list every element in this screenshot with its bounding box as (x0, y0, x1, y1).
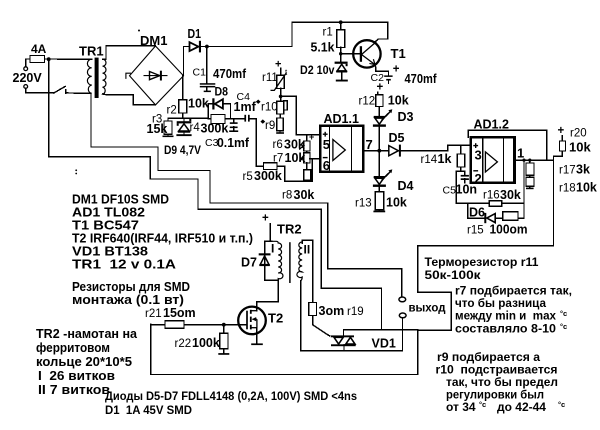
svg-text:D9 4,7V: D9 4,7V (164, 143, 201, 157)
resistor r7 (304, 153, 310, 163)
wire D7 loop (265, 241, 279, 280)
svg-text:T1: T1 (391, 46, 406, 61)
svg-text:+: + (262, 213, 269, 225)
wire VD1 bottom stub (343, 345, 345, 351)
svg-text:II 7 витков: II 7 витков (38, 383, 110, 397)
r6 select arrow (300, 146, 304, 161)
svg-text:DM1 DF10S SMD: DM1 DF10S SMD (72, 193, 169, 207)
resistor r14 (457, 154, 464, 167)
220V terminal bottom (24, 85, 28, 89)
capacitor C4 (244, 115, 249, 122)
TR2 transformer (272, 240, 313, 283)
svg-text:300k: 300k (254, 169, 282, 183)
svg-text:470mf: 470mf (213, 66, 247, 81)
svg-text:TR2 -намотан на: TR2 -намотан на (36, 327, 138, 341)
svg-text:220V: 220V (13, 71, 43, 85)
wire D9 bottom stub (183, 132, 185, 134)
svg-text:TR2: TR2 (277, 222, 302, 237)
output terminal bottom (399, 313, 406, 318)
wire feedback left leg down to r16 (456, 171, 489, 203)
wire output bottom terminal down (402, 318, 404, 351)
resistor r2 (179, 100, 187, 113)
svg-text:D8: D8 (215, 85, 229, 99)
resistor r20 (559, 141, 565, 151)
svg-text:°с: °с (558, 400, 565, 409)
svg-text:10k: 10k (188, 97, 209, 111)
wire 220V top terminal to fuse (26, 59, 30, 67)
svg-text:15om: 15om (163, 306, 196, 320)
svg-text:VD1: VD1 (372, 337, 396, 351)
resistor r13 (375, 192, 383, 210)
svg-text:+: + (275, 59, 281, 71)
wire D8 right lead (224, 103, 231, 105)
wire output node down right edge (553, 156, 555, 245)
svg-text:AD1.2: AD1.2 (474, 118, 509, 132)
op-amp AD1.2 (471, 137, 515, 182)
r9 end bar (276, 132, 284, 134)
svg-text:r13: r13 (355, 198, 372, 210)
wire r2 bottom stub (182, 113, 184, 118)
wire T1 emitter down (375, 65, 389, 76)
svg-text:°с: °с (479, 400, 486, 409)
svg-text:r20: r20 (570, 128, 587, 140)
wire r18 bottom stub (529, 186, 531, 187)
wire D8 r4 left rail (207, 104, 209, 119)
wire r12 top stub (377, 92, 379, 94)
svg-text:TR1: TR1 (79, 44, 104, 59)
wire D3 to output node (378, 125, 380, 150)
wire 220V bottom terminal to switch (26, 88, 54, 93)
wire VD1 top stub (343, 330, 345, 337)
wire loop to VD1 top (344, 329, 418, 331)
wire r4 left lead (208, 118, 211, 120)
svg-text:r19: r19 (347, 306, 364, 318)
svg-text:3om: 3om (319, 304, 345, 318)
svg-text:100k: 100k (192, 336, 220, 350)
svg-text:5: 5 (323, 137, 330, 152)
TR1 primary coil (87, 59, 91, 93)
wire r15 right (518, 217, 524, 219)
svg-text:°с: °с (560, 322, 567, 331)
svg-text:470mf: 470mf (405, 71, 438, 86)
wire A mains N stepped to output terminal (91, 93, 402, 297)
T2 source end bar (251, 343, 263, 345)
resistor r18 (526, 177, 534, 186)
fuse 4A (30, 56, 45, 63)
transistor T1 (353, 40, 380, 67)
svg-text:10k: 10k (285, 151, 306, 165)
svg-text:1: 1 (517, 146, 524, 161)
wire node to D4 (378, 151, 380, 177)
svg-text:r9: r9 (265, 120, 275, 132)
resistor r21 (165, 321, 184, 329)
svg-text:r22: r22 (175, 338, 192, 350)
svg-text:VD1 BT138: VD1 BT138 (72, 245, 148, 259)
svg-text:T1 BC547: T1 BC547 (72, 219, 139, 233)
svg-text:r17: r17 (559, 165, 576, 177)
wire D9 top stub (183, 118, 185, 122)
wire TR1 secondary bottom to bridge bottom vertex (103, 94, 156, 105)
trimmer mark r9 (260, 119, 265, 123)
svg-text:1mf: 1mf (234, 100, 257, 114)
svg-text:5.1k: 5.1k (311, 41, 335, 55)
wire r3 bottom stub (167, 134, 169, 135)
svg-text:r7: r7 (273, 153, 283, 165)
wire D2 bottom stub (341, 73, 343, 80)
resistor r6 (304, 141, 310, 151)
resistor r15 (503, 212, 518, 221)
trimmer mark r10 (256, 100, 261, 104)
svg-text:r8: r8 (282, 190, 292, 202)
wire TR2 plus stub (269, 224, 271, 242)
wire D6 branch left leg (468, 203, 485, 218)
resistor r4 (211, 114, 225, 123)
wire r1 bottom to base node to D2 (340, 47, 342, 62)
wire T2 source down (256, 328, 258, 344)
capacitor C3 (229, 122, 238, 132)
svg-text:Диоды D5-D7 FDLL4148 (0,2A, 10: Диоды D5-D7 FDLL4148 (0,2A, 100V) SMD <4… (105, 389, 357, 403)
wire r11 top plus stub (280, 68, 282, 75)
wire C1 bottom stub (206, 87, 208, 90)
svg-text:ферритовом: ферритовом (36, 341, 110, 355)
svg-text:+: + (558, 125, 565, 137)
pin polarity marks AD1.1 (323, 132, 478, 171)
wire r7 bottom to r8 (306, 163, 308, 170)
svg-text:C1: C1 (193, 67, 207, 79)
resistor r3 (164, 121, 172, 134)
svg-text:°с: °с (560, 309, 567, 318)
svg-text:I: I (271, 242, 274, 256)
svg-text:D2 10v: D2 10v (300, 63, 335, 77)
wire mains L down (junction to stepped wire B) (49, 59, 382, 329)
wire C3 bottom stub (233, 127, 235, 131)
diode D5 (389, 145, 401, 157)
svg-text:0.1mf: 0.1mf (217, 136, 250, 150)
capacitor C5 (461, 175, 469, 180)
D7 bottom stub (264, 265, 266, 271)
wire r11 bottom to junction to r10 (280, 88, 282, 101)
wire pin6 input (310, 158, 321, 160)
diode D6 (484, 213, 495, 223)
zener D7 (259, 253, 271, 266)
wire r17 top stub (529, 160, 531, 163)
resistor r17 (526, 163, 534, 175)
svg-text:II: II (304, 243, 311, 257)
svg-text:r10: r10 (261, 102, 278, 114)
op-amp AD1.1 (320, 126, 363, 172)
svg-text:до 42-44: до 42-44 (497, 400, 546, 414)
svg-text:1k: 1k (438, 152, 452, 166)
wire C5 bottom stub (464, 179, 466, 183)
wire r1 top stub (340, 22, 342, 29)
resistor r8 (304, 170, 311, 180)
wire r10 wiper loop (284, 101, 288, 110)
resistor r11 thermistor body (277, 75, 284, 88)
TR2 primary coil (272, 241, 283, 280)
svg-text:10k: 10k (386, 196, 407, 210)
r11 thermistor diagonal (271, 73, 287, 91)
svg-text:T2: T2 (268, 311, 283, 326)
r22 end bar (218, 353, 229, 355)
notes right column (425, 255, 573, 414)
svg-text:10k: 10k (388, 94, 409, 108)
svg-text:r11: r11 (262, 72, 278, 84)
svg-text:30k: 30k (284, 138, 305, 152)
wire bridge right vertex down to r2 (182, 76, 184, 100)
svg-text:D6: D6 (469, 206, 485, 220)
svg-text:3k: 3k (576, 163, 590, 177)
switch contact tick (65, 90, 67, 94)
triac VD1 (331, 335, 356, 346)
svg-text:+: + (309, 132, 314, 142)
wire base node to T1 base (341, 53, 361, 55)
resistor r9 (277, 118, 284, 131)
LED D4 (373, 169, 392, 187)
wire r21 line to T2 gate (151, 324, 165, 326)
wire r19 to VD1 gate diagonal (313, 316, 330, 336)
svg-text:C5: C5 (443, 185, 457, 197)
wire D6 to r15 (496, 217, 503, 219)
diode D8 (212, 98, 223, 109)
svg-text:r1: r1 (323, 27, 333, 39)
wire r5 right up leg (277, 166, 285, 181)
wire C2 bottom stub (388, 81, 390, 84)
resistor r5 (264, 163, 278, 170)
resistor r10 (277, 101, 284, 114)
svg-text:выход: выход (409, 303, 447, 315)
wire AD1.1 output to D5 (363, 150, 389, 152)
wire T2 drain to TR2 primary (257, 280, 278, 310)
wire switch to TR1 primary bottom (66, 92, 91, 95)
svg-text:100om: 100om (490, 223, 528, 237)
wire r10 to r9 stub (279, 114, 281, 118)
wire r20 plus stub (561, 136, 563, 142)
wire r16 right to riser (502, 202, 524, 204)
resistor r12 (376, 95, 383, 107)
r13 end bar (373, 211, 385, 213)
wire AD1.2 top feedback loop (468, 130, 547, 160)
svg-text:300k: 300k (201, 122, 229, 136)
wire r13 bottom stub (378, 210, 380, 211)
svg-text:30k: 30k (294, 188, 315, 202)
svg-text:D1 1A 45V SMD: D1 1A 45V SMD (105, 403, 192, 417)
wire r14 bottom node (460, 167, 462, 171)
svg-text:+: + (393, 64, 400, 76)
svg-text:r18: r18 (559, 183, 576, 195)
svg-text:3: 3 (475, 148, 482, 163)
wire TR1 secondary top to bridge top vertex (103, 46, 156, 59)
wire D1 to corner x292 and top rail to T1 collector (200, 22, 388, 46)
svg-text:кольце 20*10*5: кольце 20*10*5 (36, 355, 132, 369)
resistor r1 (337, 30, 345, 48)
svg-text:монтажа (0.1 вт): монтажа (0.1 вт) (72, 293, 184, 307)
wire r6 top stub (306, 135, 308, 141)
svg-text:AD1.1: AD1.1 (324, 112, 359, 126)
svg-text:T2 IRF640(IRF44, IRF510 и т.п.: T2 IRF640(IRF44, IRF510 и т.п.) (72, 232, 253, 246)
wire node line y118 r3/D9/r2/r4 (168, 117, 208, 119)
wire r8 bottom stub (306, 180, 308, 181)
svg-text:r5: r5 (243, 171, 253, 183)
wire D4 to r13 (378, 185, 380, 191)
T2 arrow (252, 317, 256, 321)
TR2 core (289, 242, 291, 283)
svg-text:r14: r14 (421, 154, 438, 166)
svg-text:10k: 10k (569, 140, 591, 155)
svg-text:D7: D7 (241, 256, 257, 270)
resistor r19 (309, 303, 317, 316)
svg-text:TR1 12 v 0.1A: TR1 12 v 0.1A (72, 258, 176, 272)
wire r6 r7 stub (306, 151, 308, 153)
wire D7 bar stub top (264, 248, 266, 254)
svg-text:составляло 8-10: составляло 8-10 (455, 322, 556, 336)
wire r14 top stub (460, 145, 462, 154)
svg-text:r12: r12 (359, 96, 376, 108)
resistor r22 (220, 333, 228, 349)
wire bridge right vertex up to D1 (184, 47, 190, 76)
svg-text:r21: r21 (145, 308, 162, 320)
resistor r16 (489, 201, 501, 206)
wire C3 top stub (233, 119, 235, 122)
svg-text:D5: D5 (389, 131, 405, 145)
wire fuse to TR1 primary top (45, 58, 92, 60)
bridge inner diode (150, 71, 162, 81)
wire r22 top stub (223, 325, 225, 333)
svg-text:10k: 10k (576, 181, 597, 195)
wire TR2 secondary top to r19 (302, 240, 312, 302)
diode D1 (190, 41, 202, 53)
svg-text:от 34: от 34 (446, 400, 476, 414)
switch blade (54, 86, 65, 93)
svg-text:+: + (377, 82, 384, 94)
wire riser x524 (523, 160, 525, 218)
LED D3 (373, 109, 392, 127)
wire r9 bottom stub (279, 131, 281, 133)
svg-text:6: 6 (323, 158, 330, 173)
svg-text:I 26 витков: I 26 витков (38, 369, 115, 383)
svg-text:D3: D3 (398, 110, 414, 124)
220V terminal top (24, 67, 28, 71)
svg-text:AD1 TL082: AD1 TL082 (72, 206, 145, 220)
svg-text:D4: D4 (398, 179, 414, 193)
r3 end bar (163, 136, 174, 138)
MOSFET T2 (238, 307, 266, 335)
wire AD1.2 pin1 output (514, 159, 553, 161)
wire C4 right to down corner to r5 (249, 119, 264, 166)
svg-text:r2: r2 (167, 105, 177, 117)
svg-text:r16: r16 (483, 190, 500, 202)
svg-text:между min и max: между min и max (455, 309, 556, 323)
capacitor C2 (384, 75, 392, 80)
svg-text:7: 7 (366, 137, 373, 152)
notes left column (36, 193, 357, 418)
TR1 secondary coil (103, 59, 107, 94)
wire C1 top stub (206, 47, 208, 84)
wire junction r11 to AD1.1 pin5 (281, 96, 321, 134)
svg-text:4A: 4A (31, 42, 47, 56)
wire feedback bottom y181 (285, 180, 313, 182)
TR1 transformer (87, 59, 106, 94)
wire r22 bottom stub (223, 349, 225, 353)
output terminal top (399, 297, 406, 302)
wire D5 to AD1.2 pin3 (399, 145, 471, 150)
DM1 bridge diamond (126, 46, 184, 105)
wire big loop around thermo text and vyhod (151, 246, 554, 375)
wire r12 to D3 (378, 107, 380, 117)
svg-text:50к-100к: 50к-100к (425, 268, 482, 282)
wire r4 right lead to C4 (225, 118, 245, 120)
svg-text:10n: 10n (456, 183, 478, 197)
svg-text:r4: r4 (190, 122, 201, 134)
wire D8 r4 right rail (230, 104, 232, 119)
wire bottom return rail to TR2 secondary (301, 281, 403, 351)
svg-text:Резисторы для SMD: Резисторы для SMD (72, 280, 190, 294)
svg-text:30k: 30k (500, 188, 521, 202)
r18 end bar (526, 188, 534, 190)
wire D8 left lead (208, 103, 213, 105)
zener D2 (335, 62, 348, 82)
bridge AC mark (126, 73, 131, 79)
TR2 secondary coil (297, 240, 313, 281)
svg-text:r6: r6 (273, 139, 283, 151)
wire r3 top stub (167, 118, 169, 121)
wire node to C5 (456, 170, 465, 172)
capacitor C1 (200, 83, 216, 92)
wire pin6 node down to feedback (311, 159, 313, 182)
svg-text:DM1: DM1 (140, 33, 167, 48)
wire C5 top stub (464, 171, 466, 175)
svg-text:15k: 15k (147, 122, 168, 136)
wire r17 r18 stub (529, 175, 531, 177)
svg-text:D1: D1 (188, 27, 202, 41)
wire r20 bottom to node (554, 151, 563, 156)
TR1 core (95, 58, 99, 98)
zener D9 (176, 119, 191, 136)
svg-text:r15: r15 (467, 225, 484, 237)
svg-text:Терморезистор r11: Терморезистор r11 (425, 255, 539, 269)
